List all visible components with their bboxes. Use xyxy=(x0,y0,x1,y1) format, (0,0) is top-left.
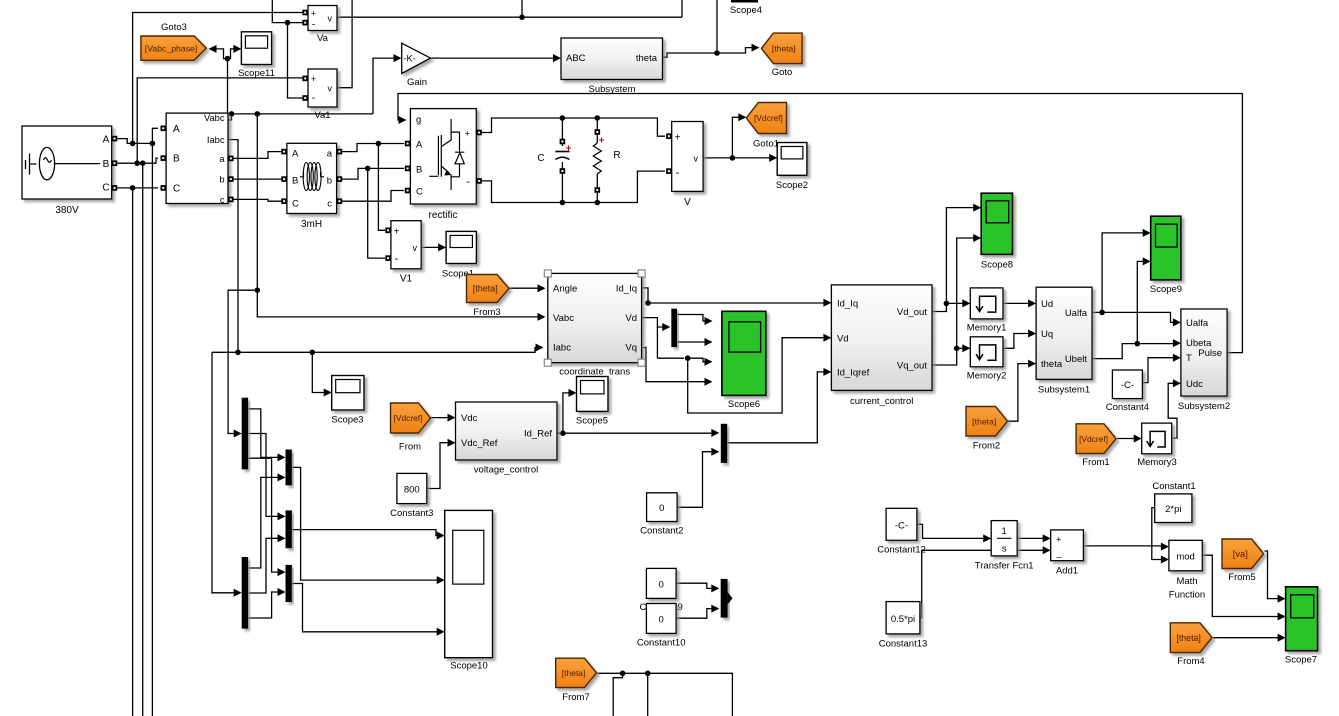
port Va1 - xyxy=(302,95,308,101)
svg-text:+: + xyxy=(311,74,316,84)
svg-text:[Vdcref]: [Vdcref] xyxy=(1079,434,1108,444)
wire 3mH c to rectific C xyxy=(340,191,405,202)
wire phase-b down to V1 - xyxy=(368,168,385,258)
subsystem block current_control xyxy=(831,285,932,391)
arrowhead into Transfer Fcn1 xyxy=(983,534,991,542)
arrowhead into current_control Id_Iqref xyxy=(823,368,831,376)
svg-text:ABC: ABC xyxy=(566,53,586,64)
arrowhead into muxA in1 xyxy=(278,453,286,461)
junction Iabc arrival xyxy=(235,350,241,356)
arrowhead into Memory1 xyxy=(962,299,970,307)
wire Vabc down branch xyxy=(256,114,258,290)
capacitor C branch xyxy=(561,118,563,146)
memory block Memory1 xyxy=(970,288,1003,319)
svg-text:Constant4: Constant4 xyxy=(1106,402,1149,413)
subsystem block Subsystem1 xyxy=(1036,287,1092,379)
arrowhead into mod in1 xyxy=(1161,543,1169,551)
port 380V C xyxy=(112,185,118,191)
wire Memory3 to Subsystem2 Udc xyxy=(1168,383,1177,438)
svg-text:[theta]: [theta] xyxy=(562,668,586,678)
svg-text:R: R xyxy=(613,150,620,161)
block three-phase VI measurement xyxy=(166,113,228,203)
svg-text:[Vabc_phase]: [Vabc_phase] xyxy=(145,43,198,53)
svg-text:Add1: Add1 xyxy=(1056,566,1078,577)
arrowhead into demux2 xyxy=(234,589,242,597)
svg-text:-: - xyxy=(312,93,315,104)
svg-text:0: 0 xyxy=(659,580,664,591)
scope Scope1 xyxy=(446,231,476,263)
goto tag Goto [theta] xyxy=(761,33,802,64)
svg-text:Scope11: Scope11 xyxy=(238,68,275,79)
svg-text:theta: theta xyxy=(636,53,658,64)
wire Vd detour below Scope6 to current_control Vd xyxy=(688,338,825,413)
wire 3mH a to rectific A xyxy=(340,144,405,152)
wire A-phase source to measurement xyxy=(118,128,159,143)
svg-text:Subsystem2: Subsystem2 xyxy=(1178,401,1230,412)
port rectific + xyxy=(476,130,482,136)
svg-text:[theta]: [theta] xyxy=(772,44,796,54)
svg-text:[theta]: [theta] xyxy=(473,284,498,294)
scope Scope8 green xyxy=(981,193,1012,254)
svg-text:2*pi: 2*pi xyxy=(1165,504,1181,515)
junction C top xyxy=(560,115,566,121)
svg-text:-: - xyxy=(676,167,680,179)
wire into Goto3 tag xyxy=(215,49,228,59)
svg-text:Scope7: Scope7 xyxy=(1285,655,1317,666)
svg-text:v: v xyxy=(328,84,333,94)
svg-text:a: a xyxy=(327,149,333,160)
svg-text:3mH: 3mH xyxy=(301,219,322,230)
port measurement A xyxy=(161,126,167,132)
svg-text:C: C xyxy=(416,187,423,198)
svg-text:Vdc_Ref: Vdc_Ref xyxy=(461,438,498,449)
arrowhead into Scope6 in1 xyxy=(705,317,713,325)
svg-text:Vd: Vd xyxy=(625,313,637,324)
svg-text:C: C xyxy=(537,153,544,164)
constant block Constant9 value 0 xyxy=(646,568,676,598)
wire From7 branch 2 down xyxy=(647,673,649,716)
arrowhead into Scope11 xyxy=(233,45,241,53)
svg-text:From: From xyxy=(399,442,421,453)
muxA bar xyxy=(286,450,292,486)
wire mux3 output to current_control Id_Iqref xyxy=(727,372,825,443)
svg-text:800: 800 xyxy=(404,485,420,496)
transfer function block Transfer Fcn1 xyxy=(991,521,1017,556)
wire B-phase long vertical down xyxy=(142,163,144,716)
svg-text:Pulse: Pulse xyxy=(1198,348,1222,359)
wire Constant2 to mux3 in2 xyxy=(677,452,714,508)
wire measurement b to 3mH B xyxy=(233,178,284,180)
scope Scope4 partial at top edge xyxy=(731,0,758,3)
svg-text:From7: From7 xyxy=(562,692,589,703)
wire Vd_out up to Scope8 input1 xyxy=(946,208,975,304)
constant block Constant13 value 0.5*pi xyxy=(886,602,920,634)
junction A-phase to Va+ xyxy=(130,141,136,147)
svg-text:Vd_out: Vd_out xyxy=(897,307,927,318)
demux2 bar xyxy=(242,557,248,629)
svg-text:Scope6: Scope6 xyxy=(728,399,760,410)
junction From7 a xyxy=(620,671,626,677)
svg-text:Scope3: Scope3 xyxy=(331,415,363,426)
svg-text:A: A xyxy=(103,135,110,146)
muxB bar xyxy=(286,510,292,548)
wire Iabc output of measurement xyxy=(228,140,238,353)
svg-text:Ualfa: Ualfa xyxy=(1065,308,1088,319)
arrowhead into Scope3 xyxy=(324,389,332,397)
svg-text:B: B xyxy=(173,154,180,165)
svg-text:Subsystem1: Subsystem1 xyxy=(1038,385,1090,396)
svg-text:Id_Iq: Id_Iq xyxy=(837,299,858,310)
svg-text:[Vdcref]: [Vdcref] xyxy=(394,413,423,423)
block V1 voltage measurement xyxy=(391,221,421,269)
svg-text:0: 0 xyxy=(659,503,664,514)
port V1 - xyxy=(385,255,391,261)
wire From4 to Scope7 input3 xyxy=(1213,637,1280,639)
demux1 bar xyxy=(242,398,248,470)
wire Vabc to coordinate_trans Vabc input xyxy=(257,290,539,317)
junction A-phase down-line xyxy=(150,141,156,147)
red + polarity mark on capacitor xyxy=(566,146,571,151)
svg-text:Memory2: Memory2 xyxy=(967,371,1007,382)
junction C bottom xyxy=(560,200,566,206)
arrowhead into Scope5 xyxy=(569,389,577,397)
svg-text:Scope9: Scope9 xyxy=(1150,284,1182,295)
svg-text:-C-: -C- xyxy=(895,521,908,532)
svg-text:Vq: Vq xyxy=(625,343,637,354)
arrowhead into muxA in2 xyxy=(278,473,286,481)
junction Ubeta xyxy=(1135,341,1141,347)
svg-text:Goto: Goto xyxy=(772,67,793,78)
wire demux2 out3 to muxC in2 xyxy=(248,592,279,618)
wire From1 to Memory3 xyxy=(1117,438,1136,440)
svg-text:Scope2: Scope2 xyxy=(776,180,808,191)
junction Vd_out xyxy=(944,301,950,307)
svg-text:c: c xyxy=(327,199,332,210)
wire From5 to Scope7 input1 xyxy=(1265,551,1280,599)
constant block Constant10 value 0 xyxy=(646,604,676,634)
from tag From [Vdcref] xyxy=(391,403,431,433)
wire Id_Iq output to current_control xyxy=(642,288,825,303)
svg-text:T: T xyxy=(1186,353,1192,364)
svg-text:Angle: Angle xyxy=(553,284,577,295)
wire demux1 out1 to muxA in1 xyxy=(248,409,279,458)
svg-text:380V: 380V xyxy=(55,205,79,216)
port resistor top xyxy=(595,129,601,135)
arrowhead into Scope10 in3 xyxy=(437,628,445,636)
wire From2 to Subsystem1 theta xyxy=(1008,364,1030,422)
arrowhead into Vdc xyxy=(448,414,456,422)
arrowhead into Scope6 in4 xyxy=(705,378,713,386)
svg-text:Iabc: Iabc xyxy=(207,135,225,145)
wire Vq_out up to Scope8 input2 xyxy=(957,238,975,348)
arrowhead into Subsystem2 Udc xyxy=(1173,379,1181,387)
block V voltage measurement xyxy=(672,122,703,192)
wire theta up to Scope4 xyxy=(716,0,718,53)
svg-text:Uq: Uq xyxy=(1041,329,1053,340)
svg-text:V: V xyxy=(684,197,691,208)
arrowhead into Add1 + xyxy=(1043,534,1051,542)
svg-text:A: A xyxy=(173,124,180,135)
svg-text:b: b xyxy=(327,176,332,187)
port 3mH A xyxy=(281,149,287,155)
block Va voltage measurement xyxy=(308,6,337,31)
svg-text:From5: From5 xyxy=(1228,572,1255,583)
svg-text:Scope8: Scope8 xyxy=(981,260,1013,271)
arrowhead into Subsystem2 Ualfa xyxy=(1173,318,1181,326)
svg-text:-: - xyxy=(395,253,399,265)
wire Id_Ref up to Scope5 xyxy=(563,393,570,433)
wire rectific + to DC top rail xyxy=(482,118,665,136)
wire Vabc branch up to Goto3/Scope11 xyxy=(227,59,229,114)
arrowhead into mux3 in2 xyxy=(711,448,719,456)
port rectific B xyxy=(405,166,411,172)
svg-text:Memory1: Memory1 xyxy=(967,323,1007,334)
arrowhead into Scope7 in2 xyxy=(1278,613,1286,621)
wire Subsystem1 Ualfa to Subsystem2 Ualfa xyxy=(1092,312,1175,322)
wire voltage_control Id_Ref to mux3 xyxy=(557,432,716,434)
junction phase-b to V1- xyxy=(365,166,371,172)
wire From3 to coordinate_trans Angle xyxy=(509,287,539,289)
svg-text:Id_Ref: Id_Ref xyxy=(524,429,552,440)
arrowhead into Scope6 in2 xyxy=(705,338,713,346)
port measurement B xyxy=(161,155,167,161)
svg-text:B: B xyxy=(103,159,110,170)
wire Transfer Fcn1 to Add1 + xyxy=(1017,537,1044,539)
scope Scope5 xyxy=(577,377,609,412)
svg-text:From2: From2 xyxy=(973,441,1000,452)
svg-text:0.5*pi: 0.5*pi xyxy=(891,614,915,625)
subsystem block Subsystem2 xyxy=(1181,309,1227,396)
svg-text:Iabc: Iabc xyxy=(553,343,571,354)
svg-text:From1: From1 xyxy=(1082,457,1109,468)
svg-text:Id_Iq: Id_Iq xyxy=(616,284,637,295)
wire Constant12 to Transfer Fcn1 xyxy=(917,524,985,538)
svg-text:Function: Function xyxy=(1169,590,1205,601)
svg-text:Ubelt: Ubelt xyxy=(1065,354,1088,365)
arrowhead into demux3 xyxy=(662,323,670,331)
wire B-phase up to Va1 + input xyxy=(137,78,305,163)
svg-text:Vq_out: Vq_out xyxy=(897,361,927,372)
wire Vabc output of measurement xyxy=(228,114,373,120)
wire current_control Vd_out to Memory1 xyxy=(932,303,964,311)
resistor R branch xyxy=(596,118,598,143)
svg-text:_: _ xyxy=(1056,548,1063,559)
wire demux1 out3 to muxC in1 xyxy=(248,458,279,572)
svg-text:Vabc: Vabc xyxy=(553,313,574,324)
wire branch to Scope3 xyxy=(312,352,326,392)
svg-text:From3: From3 xyxy=(473,307,500,318)
wire From-Vdcref to voltage_control Vdc xyxy=(431,417,450,419)
wire Pulse feedback from Subsystem2 to rectific g xyxy=(398,94,1242,353)
svg-text:v: v xyxy=(328,14,333,24)
from tag From5 [va] xyxy=(1222,539,1264,569)
wire Add1 to Math Function mod input1 xyxy=(1083,545,1163,548)
arrowhead into Goto1 xyxy=(738,113,746,121)
arrowhead into Scope6 in3 xyxy=(705,358,713,366)
block rectific universal bridge xyxy=(410,109,476,204)
svg-text:B: B xyxy=(416,165,422,176)
wire Va1 output up to top edge xyxy=(337,0,352,88)
arrowhead into Uq xyxy=(1028,330,1036,338)
arrowhead into Memory3 xyxy=(1134,435,1142,443)
svg-text:From4: From4 xyxy=(1177,656,1204,667)
wire demux3 out2 to Scope6 input2 xyxy=(677,341,706,343)
wire current_control Vq_out to Memory2 xyxy=(932,348,964,365)
block 3mH three-phase inductor xyxy=(287,143,337,213)
wire measurement c to 3mH C xyxy=(233,199,284,201)
junction Va-/Va1- xyxy=(285,20,291,26)
port measurement b xyxy=(228,176,234,182)
svg-text:+: + xyxy=(311,9,316,19)
wire Iabc horizontal line xyxy=(212,348,537,353)
wire rectific - to DC bottom rail xyxy=(482,171,665,202)
svg-text:+: + xyxy=(464,129,470,140)
svg-text:[Vdcref]: [Vdcref] xyxy=(754,113,783,123)
svg-text:Transfer Fcn1: Transfer Fcn1 xyxy=(975,561,1034,572)
wire demux1 out2 to muxB in1 xyxy=(248,434,279,517)
arrowhead into Subsystem2 T xyxy=(1173,354,1181,362)
scope Scope9 green xyxy=(1151,216,1181,280)
wire C-phase source to measurement xyxy=(118,187,159,189)
svg-text:V1: V1 xyxy=(400,274,413,285)
svg-text:Goto1: Goto1 xyxy=(753,139,779,150)
svg-text:-: - xyxy=(466,176,470,188)
arrowhead into Scope2 xyxy=(769,154,777,162)
port V - xyxy=(666,168,672,174)
svg-text:C: C xyxy=(292,199,299,210)
from tag From1 [Vdcref] xyxy=(1076,424,1116,454)
wire From7 branch 1 down xyxy=(613,673,622,716)
arrowhead into Vdc_Ref xyxy=(448,439,456,447)
svg-text:Goto3: Goto3 xyxy=(161,22,187,33)
from tag From4 [theta] xyxy=(1170,623,1212,653)
junction R top xyxy=(595,115,601,121)
capacitor C plates xyxy=(555,151,569,153)
junction Ualfa xyxy=(1099,310,1105,316)
port 3mH C xyxy=(281,198,287,204)
svg-text:Memory3: Memory3 xyxy=(1137,457,1177,468)
constant block Constant4 value -C- xyxy=(1112,370,1142,399)
svg-text:v: v xyxy=(413,243,418,253)
svg-text:Constant1: Constant1 xyxy=(1152,481,1195,492)
svg-text:c: c xyxy=(220,195,225,205)
svg-text:Vabc: Vabc xyxy=(204,113,225,123)
svg-text:Va: Va xyxy=(317,33,329,44)
wire V1 output to Scope1 xyxy=(421,246,440,248)
arrowhead into coordinate_trans Iabc xyxy=(536,344,544,352)
rectific IGBT icon xyxy=(429,119,464,190)
junction B-phase down-line xyxy=(140,160,146,166)
wire muxB output to Scope10 input1 xyxy=(292,530,439,536)
wire Constant4 to Subsystem2 T xyxy=(1142,358,1174,383)
gain block Gain xyxy=(402,43,431,73)
arrowhead into mux3 in1 xyxy=(711,429,719,437)
port V + xyxy=(666,133,672,139)
subsystem block coordinate_trans xyxy=(548,273,642,362)
arrowhead into current_control Id_Iq xyxy=(823,299,831,307)
svg-text:theta: theta xyxy=(1041,359,1063,370)
arrowhead into Scope1 xyxy=(438,243,446,251)
resistor R zigzag xyxy=(593,143,601,174)
svg-text:Ualfa: Ualfa xyxy=(1186,318,1209,329)
scope Scope11 xyxy=(241,32,271,65)
arrowhead into Angle xyxy=(538,284,546,292)
arrowhead into muxC in2 xyxy=(278,588,286,596)
svg-text:-C-: -C- xyxy=(1121,380,1134,391)
svg-text:mod: mod xyxy=(1176,552,1194,563)
arrowhead into Goto3 xyxy=(209,45,217,53)
3mH inductor coil icon xyxy=(300,172,304,177)
wire Memory1 to Subsystem1 Ud xyxy=(1003,302,1030,304)
port 3mH a xyxy=(337,149,343,155)
wire C-phase long vertical down xyxy=(132,188,134,716)
svg-text:rectific: rectific xyxy=(429,210,458,221)
wire V output to Scope2 xyxy=(703,157,771,159)
svg-text:voltage_control: voltage_control xyxy=(474,465,538,476)
svg-text:Va1: Va1 xyxy=(314,110,330,121)
svg-text:+: + xyxy=(1056,535,1062,546)
port 3mH B xyxy=(281,176,287,182)
junction B-phase to Va1+ xyxy=(134,160,140,166)
svg-text:b: b xyxy=(219,175,224,185)
wire Subsystem1 Ubelt to Subsystem2 Ubeta xyxy=(1092,344,1175,359)
380V AC source circle xyxy=(39,147,54,179)
mux2 with caret xyxy=(721,579,728,618)
wire A-phase up to Va + input xyxy=(133,13,305,144)
svg-text:Scope5: Scope5 xyxy=(576,416,608,427)
port capacitor bottom xyxy=(560,168,566,174)
port resistor bottom xyxy=(595,187,601,193)
svg-text:g: g xyxy=(416,115,421,126)
svg-text:Scope4: Scope4 xyxy=(730,5,762,16)
svg-text:Gain: Gain xyxy=(407,77,427,88)
junction V output to Goto1 xyxy=(730,155,736,161)
port 3mH b xyxy=(337,176,343,182)
wire mod output to Scope7 input2 xyxy=(1202,555,1279,616)
svg-text:Constant3: Constant3 xyxy=(390,508,433,519)
arrowhead into Scope10 in1 xyxy=(437,532,445,540)
svg-text:-K-: -K- xyxy=(404,54,416,64)
wire Vq output to Scope6 input4 xyxy=(642,348,706,382)
wire branch up from Va output xyxy=(521,0,523,17)
wire Ualfa up to Scope9 input1 xyxy=(1102,233,1144,313)
subsystem block Subsystem xyxy=(561,38,663,80)
arrowhead into Scope9 in2 xyxy=(1143,257,1151,265)
arrowhead into Scope10 in2 xyxy=(437,576,445,584)
junction Vq_out xyxy=(954,346,960,352)
selection handles coordinate_trans xyxy=(544,270,551,277)
wire Constant1 2*pi to mod input2 xyxy=(1152,508,1163,560)
wire from top edge to Va - input xyxy=(272,0,305,23)
arrowhead into Add1 - xyxy=(1043,546,1051,554)
arrowhead into coordinate_trans Vabc xyxy=(538,313,546,321)
arrowhead into muxB in2 xyxy=(278,534,286,542)
wire Ubeta up to Scope9 input2 xyxy=(1137,261,1144,343)
wire A-phase long vertical down xyxy=(151,143,153,716)
svg-text:s: s xyxy=(1002,544,1007,555)
junction Goto3/Scope11 xyxy=(225,56,231,62)
junction Id_Iq xyxy=(645,300,651,306)
svg-text:A: A xyxy=(292,149,299,160)
arrowhead into Memory2 xyxy=(962,344,970,352)
svg-text:[theta]: [theta] xyxy=(1176,633,1200,643)
junction Vabc to demux1 xyxy=(254,287,260,293)
svg-text:1: 1 xyxy=(1002,526,1007,537)
port rectific A xyxy=(405,141,411,147)
arrowhead into mod in2 xyxy=(1161,556,1169,564)
port rectific C xyxy=(405,188,411,194)
svg-text:0: 0 xyxy=(659,615,664,626)
